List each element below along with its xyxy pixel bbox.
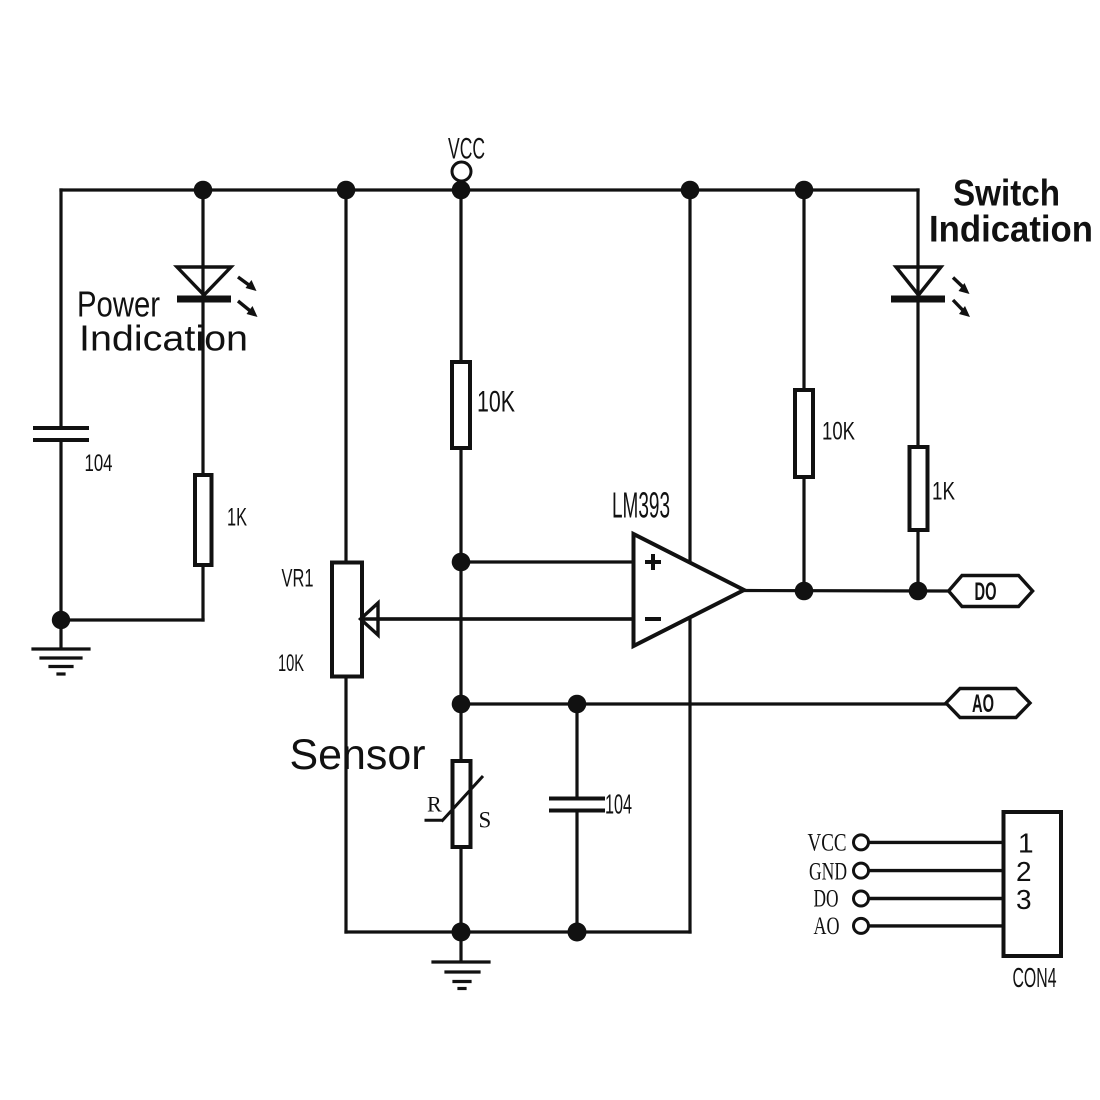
svg-text:Sensor: Sensor bbox=[290, 731, 426, 779]
svg-text:VCC: VCC bbox=[808, 830, 847, 857]
svg-text:GND: GND bbox=[809, 859, 847, 886]
svg-text:2: 2 bbox=[1016, 856, 1032, 887]
svg-text:DO: DO bbox=[975, 578, 997, 606]
svg-text:10K: 10K bbox=[822, 418, 855, 446]
svg-text:S: S bbox=[479, 808, 492, 833]
svg-text:Switch: Switch bbox=[953, 173, 1060, 214]
svg-text:VCC: VCC bbox=[448, 133, 485, 166]
svg-text:10K: 10K bbox=[278, 650, 304, 677]
svg-text:LM393: LM393 bbox=[612, 485, 670, 526]
svg-text:1K: 1K bbox=[932, 478, 955, 506]
svg-text:1K: 1K bbox=[227, 504, 247, 532]
svg-text:AO: AO bbox=[814, 913, 840, 940]
svg-text:R: R bbox=[427, 792, 442, 817]
svg-text:VR1: VR1 bbox=[282, 565, 314, 593]
svg-text:10K: 10K bbox=[477, 386, 515, 419]
svg-text:CON4: CON4 bbox=[1013, 962, 1057, 993]
svg-text:1: 1 bbox=[1018, 828, 1034, 859]
svg-text:Indication: Indication bbox=[929, 209, 1093, 250]
svg-text:104: 104 bbox=[605, 789, 632, 820]
svg-text:DO: DO bbox=[814, 886, 839, 913]
svg-text:3: 3 bbox=[1016, 884, 1032, 915]
svg-text:AO: AO bbox=[972, 690, 994, 718]
svg-text:104: 104 bbox=[85, 450, 113, 477]
svg-text:Indication: Indication bbox=[79, 318, 248, 359]
